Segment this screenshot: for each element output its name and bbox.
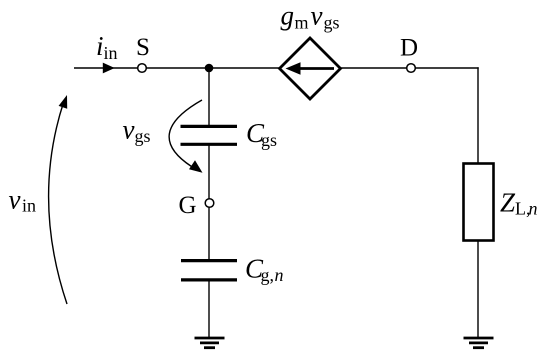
vgs arc arrow — [169, 100, 202, 167]
svg-text:gs: gs — [135, 126, 151, 146]
svg-text:G: G — [179, 192, 197, 219]
svg-text:m: m — [295, 13, 309, 33]
wire: input left segment — [74, 67, 138, 69]
node D — [407, 64, 416, 73]
wire: diamond to D — [341, 67, 407, 69]
capacitor Cgs — [181, 125, 238, 128]
svg-text:i: i — [96, 31, 104, 61]
wire: corner down to load — [477, 67, 479, 164]
svg-text:n: n — [275, 265, 284, 285]
current arrow i_in — [103, 63, 115, 74]
svg-text:v: v — [123, 115, 135, 145]
vin arc arrow — [49, 103, 67, 305]
left ground — [195, 337, 225, 340]
dependent source arrow — [300, 67, 335, 70]
svg-text:in: in — [104, 43, 118, 63]
svg-text:in: in — [22, 196, 36, 216]
svg-text:g,: g, — [261, 265, 275, 285]
capacitor Cg,n — [181, 259, 237, 262]
load Z_L,n — [464, 164, 494, 241]
svg-text:n: n — [529, 199, 538, 219]
wire: D to top-right corner — [415, 67, 478, 69]
svg-text:v: v — [9, 185, 21, 215]
right ground — [464, 337, 494, 340]
wire: Cgs to node G — [208, 145, 210, 199]
svg-text:Z: Z — [500, 188, 516, 218]
svg-text:gs: gs — [324, 13, 340, 33]
svg-text:gs: gs — [261, 130, 277, 150]
wire: junction down to Cgs — [208, 68, 210, 126]
svg-text:S: S — [136, 34, 150, 61]
node S — [138, 64, 147, 73]
wire: Cgn to left ground — [208, 280, 210, 338]
svg-text:g: g — [281, 1, 295, 31]
dependent source U1 diamond — [280, 38, 341, 99]
wire: load to right ground — [477, 240, 479, 338]
wire: S to junction — [146, 67, 279, 69]
svg-text:v: v — [311, 1, 323, 31]
svg-text:D: D — [400, 35, 418, 62]
node G — [205, 199, 214, 208]
wire: node G to Cgn — [208, 207, 210, 260]
junction dot — [205, 64, 214, 73]
